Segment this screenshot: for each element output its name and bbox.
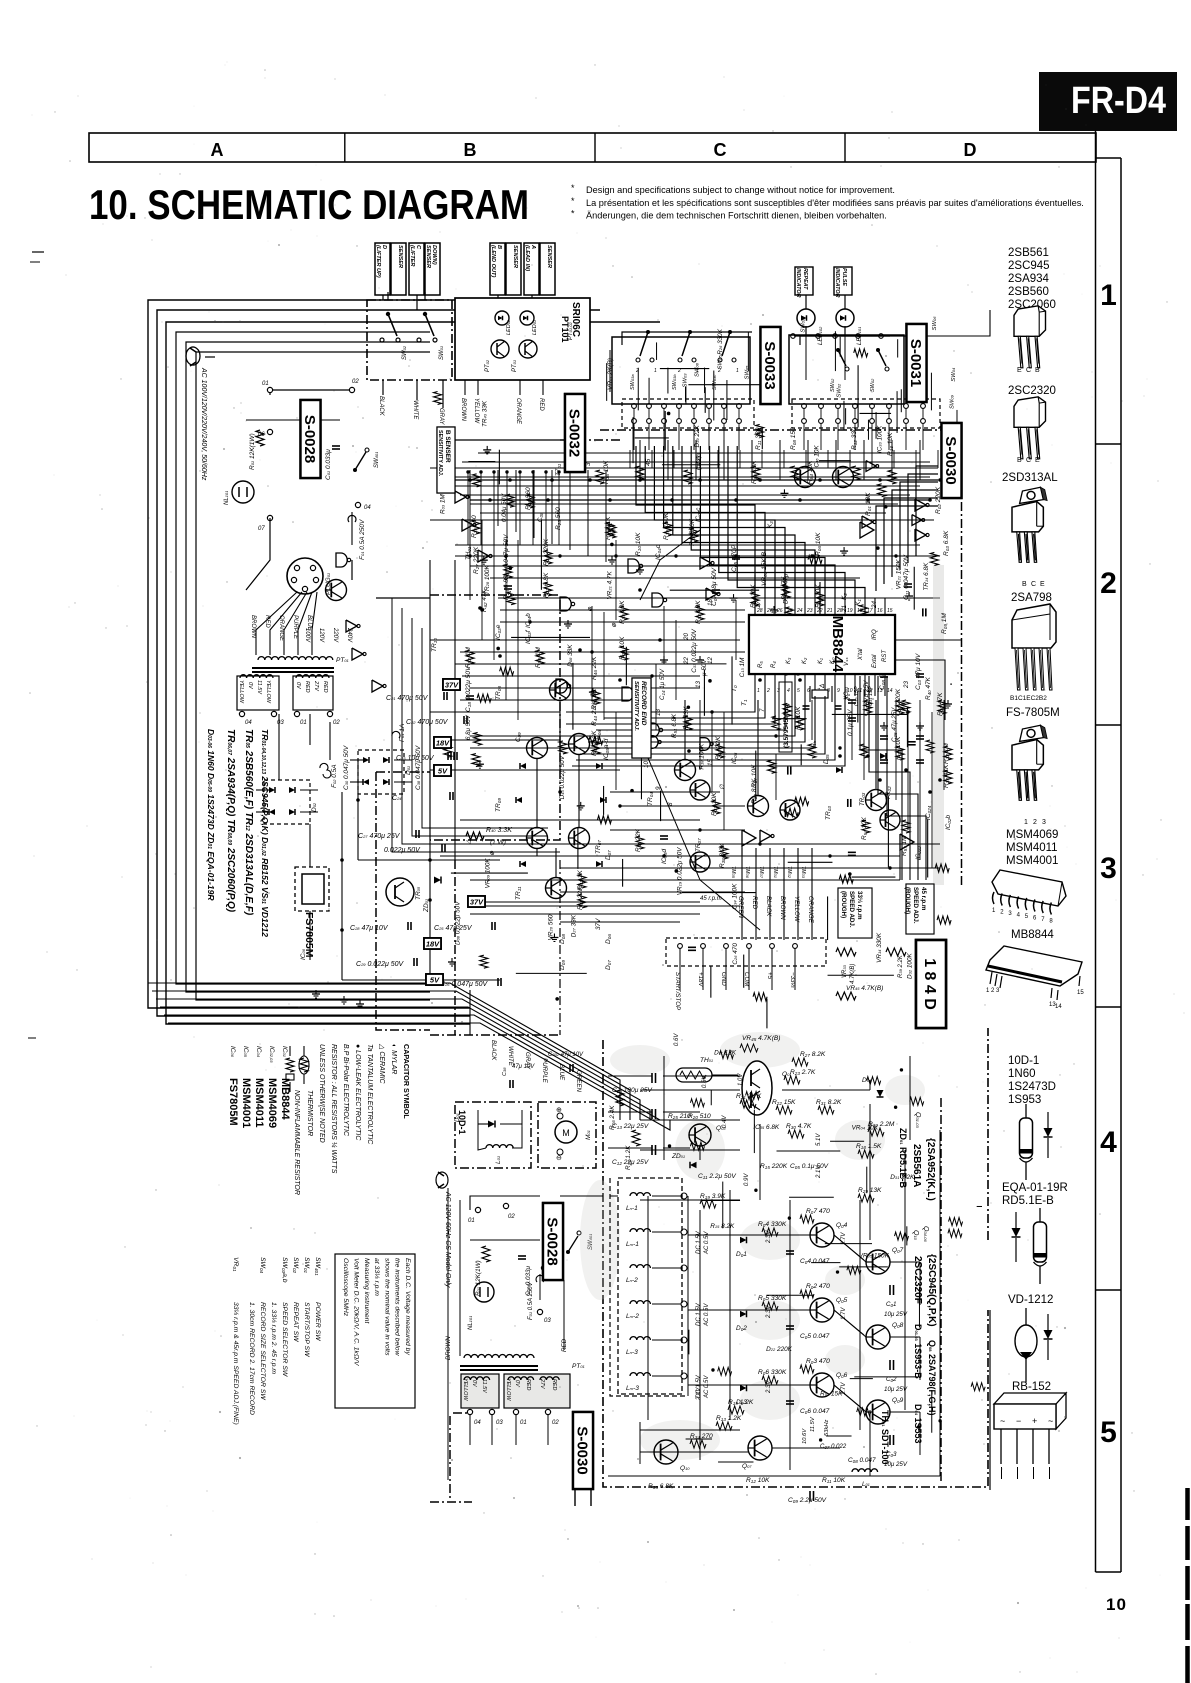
svg-text:(LEND OUT): (LEND OUT) [490,245,496,277]
svg-text:T701: T701 [555,463,562,476]
svg-text:0.6V: 0.6V [702,1075,708,1088]
svg-text:{2SC945(Q,P,K): {2SC945(Q,P,K) [926,1254,937,1327]
svg-text:9: 9 [655,786,662,790]
svg-text:CAPACITOR SYMBOL: CAPACITOR SYMBOL [402,1044,411,1119]
svg-text:03: 03 [544,1318,551,1324]
svg-text:T1: T1 [741,699,748,706]
svg-text:C08: C08 [537,512,544,522]
svg-text:04: 04 [474,1420,481,1426]
svg-text:C24: C24 [392,795,402,802]
svg-text:4: 4 [1100,1126,1117,1159]
svg-text:03: 03 [496,1420,503,1426]
svg-text:D07: D07 [605,850,612,860]
svg-text:R15 220K: R15 220K [760,1163,788,1170]
svg-text:PULSE: PULSE [841,268,847,286]
svg-text:2.3V: 2.3V [766,1230,772,1244]
svg-text:Each D.C. Voltage measured by: Each D.C. Voltage measured by [404,1258,411,1355]
svg-text:YELLOW: YELLOW [462,1378,468,1401]
svg-text:C: C [714,140,727,160]
svg-text:(ROUGH): (ROUGH) [904,887,911,914]
svg-text:Q07: Q07 [742,1463,752,1470]
svg-text:MSM4001: MSM4001 [240,1078,252,1128]
svg-text:SW401: SW401 [314,1257,321,1276]
svg-text:01: 01 [262,381,269,387]
svg-text:53kHz: 53kHz [824,1419,830,1436]
svg-text:120V: 120V [318,628,324,643]
svg-text:0.4V: 0.4V [722,1115,728,1128]
svg-text:C11 2.2μ 50V: C11 2.2μ 50V [698,1173,736,1180]
svg-text:VD-1212: VD-1212 [1008,1294,1053,1306]
svg-text:R08 150: R08 150 [790,427,797,450]
svg-text:13: 13 [695,681,702,688]
svg-text:ZD01: ZD01 [671,1153,685,1160]
svg-text:C14 1μ 50V: C14 1μ 50V [659,668,666,700]
svg-text:TR07: TR07 [595,840,602,854]
svg-text:INDICATOR: INDICATOR [834,268,840,298]
svg-text:FS7805M: FS7805M [227,1078,239,1126]
svg-text:R10 10K: R10 10K [635,532,642,556]
svg-text:D27 33K: D27 33K [570,914,577,937]
svg-text:RED: RED [751,896,758,910]
svg-text:04: 04 [245,720,252,726]
svg-text:+5: +5 [766,972,773,980]
svg-text:11.5V: 11.5V [256,680,262,695]
svg-text:11.5V: 11.5V [810,1416,816,1432]
svg-text:27V: 27V [539,1378,545,1390]
svg-text:IC02b: IC02b [945,814,952,830]
svg-text:D38 0.047μ: D38 0.047μ [782,573,789,604]
svg-text:BLACK: BLACK [765,896,772,917]
svg-text:9: 9 [837,688,840,694]
svg-text:5.1V: 5.1V [816,1133,822,1146]
svg-text:RECORD END: RECORD END [640,681,647,726]
svg-text:3: 3 [1042,819,1046,826]
svg-text:C03 47μ 10V: C03 47μ 10V [915,653,922,690]
svg-text:Q06: Q06 [836,1372,848,1379]
svg-text:R03 6.8K: R03 6.8K [943,530,950,556]
svg-text:C06 0.047: C06 0.047 [800,1408,830,1415]
svg-text:1 8 4 D: 1 8 4 D [921,958,938,1010]
svg-text:S-0028: S-0028 [301,415,318,463]
svg-text:⊕: ⊕ [611,622,618,628]
svg-text:TR10: TR10 [431,638,438,652]
svg-text:C15 47μ 25V: C15 47μ 25V [891,707,898,742]
svg-text:2.1V: 2.1V [696,1387,702,1401]
svg-text:Q07: Q07 [892,1247,904,1254]
svg-text:POWER SW: POWER SW [314,1302,321,1341]
svg-text:R15 1.2K: R15 1.2K [625,1145,632,1170]
svg-text:S-0030: S-0030 [942,436,959,484]
svg-text:AC 0.5V: AC 0.5V [704,1231,710,1255]
svg-text:Ln-2: Ln-2 [626,1277,638,1284]
svg-text:MSM4069: MSM4069 [266,1078,278,1128]
svg-text:M: M [562,1128,570,1138]
svg-text:2SA934: 2SA934 [1008,273,1050,285]
svg-text:Q05: Q05 [836,1297,848,1304]
svg-text:11.5V: 11.5V [481,1379,487,1394]
svg-text:GREEN: GREEN [575,1070,582,1093]
svg-text:24: 24 [871,601,878,609]
svg-text:(LIFTER UP): (LIFTER UP) [375,245,381,278]
svg-text:VR05 150K: VR05 150K [859,1252,890,1259]
svg-text:START/STOP SW: START/STOP SW [303,1302,310,1357]
svg-text:AC 0.5V: AC 0.5V [704,1375,710,1399]
svg-text:△: △ [465,839,472,845]
svg-text:C09 2.2μ 50V: C09 2.2μ 50V [788,1497,827,1504]
svg-text:02: 02 [333,720,340,726]
svg-text:TR43 33K: TR43 33K [482,400,489,427]
svg-text:D02: D02 [311,802,318,812]
svg-text:B.P Bi-Polar ELECTROLYTIC: B.P Bi-Polar ELECTROLYTIC [342,1044,349,1137]
svg-text:1S953: 1S953 [1008,1094,1041,1106]
svg-text:IC35 6.8K: IC35 6.8K [753,1124,780,1131]
svg-text:S-0031: S-0031 [907,339,924,387]
svg-text:33⅓ r.p.m & 45r.p.m SPEED ADJ.: 33⅓ r.p.m & 45r.p.m SPEED ADJ.(FINE) [232,1302,239,1425]
svg-text:IC06: IC06 [300,948,307,960]
svg-text:⊕: ⊕ [489,850,496,856]
svg-text:RESISTOR : ALL RESISTORS ¼ WAT: RESISTOR : ALL RESISTORS ¼ WATTS [330,1044,337,1174]
svg-text:S-0033: S-0033 [761,341,778,389]
svg-text:1: 1 [1024,819,1028,826]
svg-text:C13 1M: C13 1M [739,657,746,677]
svg-text:07: 07 [258,526,265,532]
svg-text:D31 2.2K: D31 2.2K [890,1174,915,1181]
svg-text:14: 14 [887,688,893,694]
svg-text:L01: L01 [495,1156,502,1164]
svg-text:K₀: K₀ [830,657,836,664]
svg-text:R05 15K: R05 15K [820,1391,843,1398]
svg-text:NON-INFLAMMABLE RESISTOR: NON-INFLAMMABLE RESISTOR [293,1090,300,1195]
svg-text:F02 0.5A: F02 0.5A [331,764,338,788]
svg-text:18: 18 [707,599,714,606]
svg-text:*: * [571,209,575,219]
svg-text:C09: C09 [515,732,522,742]
svg-text:FR-D4: FR-D4 [1071,80,1166,122]
svg-text:DC 1.5V: DC 1.5V [696,1302,702,1326]
svg-text:19: 19 [695,605,702,612]
svg-text:GND: GND [720,972,727,986]
svg-text:R02 470: R02 470 [806,1283,830,1290]
svg-text:K₃: K₃ [786,657,792,664]
svg-text:*: * [571,196,575,206]
svg-text:2.1V: 2.1V [816,1165,822,1179]
svg-text:Ln-3: Ln-3 [626,1349,638,1356]
svg-text:∅: ∅ [719,784,726,790]
svg-text:SENSER: SENSER [397,245,403,268]
svg-text:Volt Meter D.C. 20kΩ/V, A.C. 1: Volt Meter D.C. 20kΩ/V, A.C. 1kΩ/V [353,1258,360,1367]
svg-text:{2SA952(K,L): {2SA952(K,L) [925,1138,936,1201]
svg-text:B1C1EC2B2: B1C1EC2B2 [1010,695,1047,702]
svg-text:B: B [1035,367,1040,374]
svg-text:IRQ: IRQ [872,629,878,640]
svg-text:D04 1S553: D04 1S553 [913,1404,923,1443]
svg-text:R23 2.7K: R23 2.7K [790,1069,816,1076]
svg-text:B: B [1022,581,1027,588]
svg-text:YELLOW: YELLOW [265,680,271,704]
svg-text:● LOW-LEAK ELECTROLYTIC: ● LOW-LEAK ELECTROLYTIC [354,1044,361,1141]
svg-text:R30 4.7K: R30 4.7K [786,1123,812,1130]
svg-text:C01 0.033μ: C01 0.033μ [325,449,332,480]
svg-text:◐ MYLAR: ◐ MYLAR [390,1044,397,1074]
svg-text:C08 0.047: C08 0.047 [848,1457,876,1464]
svg-text:C38 0.047μ 50V: C38 0.047μ 50V [415,745,422,790]
svg-text:VR01: VR01 [232,1257,239,1272]
svg-text:2SD313AL: 2SD313AL [1002,472,1058,484]
svg-text:YELLOW: YELLOW [238,680,244,704]
svg-text:D08 0.022μ 50V: D08 0.022μ 50V [455,901,462,945]
svg-text:C04 0.047: C04 0.047 [800,1258,830,1265]
svg-text:27: 27 [766,608,773,614]
svg-text:220V: 220V [332,627,338,643]
svg-text:02: 02 [352,379,359,385]
svg-text:D32 100K: D32 100K [906,952,913,979]
svg-text:10: 10 [643,761,650,768]
svg-text:TH01: TH01 [465,546,472,560]
svg-text:15: 15 [1077,990,1084,996]
svg-text:D08 33K: D08 33K [567,644,574,667]
svg-text:Ta TANTALUM ELECTROLYTIC: Ta TANTALUM ELECTROLYTIC [366,1044,373,1145]
svg-text:D02: D02 [736,1325,747,1332]
svg-text:REPEAT SW: REPEAT SW [292,1302,299,1342]
svg-text:C05 0.1μ 50V: C05 0.1μ 50V [790,1163,829,1170]
svg-text:FS-7805M: FS-7805M [1006,707,1060,719]
svg-text:IC04b: IC04b [525,613,532,628]
svg-text:Q09: Q09 [892,1397,904,1404]
svg-text:R12 330: R12 330 [851,427,858,450]
svg-text:10D-1: 10D-1 [1008,1055,1039,1067]
svg-text:F01 0.5A 250V: F01 0.5A 250V [359,519,366,560]
svg-text:VR21 150K: VR21 150K [895,559,902,590]
svg-text:REPEAT: REPEAT [802,268,808,290]
svg-text:R11 10K: R11 10K [822,1477,846,1484]
svg-text:SPEED ADJ.: SPEED ADJ. [912,887,919,924]
svg-text:(LIFTER: (LIFTER [409,245,415,266]
svg-text:R19 1.2K: R19 1.2K [728,1399,754,1406]
svg-text:8: 8 [667,802,674,806]
svg-text:THERMISTOR: THERMISTOR [306,1090,313,1136]
svg-text:La présentation et les spécifi: La présentation et les spécifications so… [586,198,1084,208]
svg-text:1.0V: 1.0V [738,1073,744,1086]
svg-text:X'tal: X'tal [858,648,864,661]
svg-text:01: 01 [300,720,307,726]
svg-text:Oscilloscope 5MHz: Oscilloscope 5MHz [342,1258,349,1317]
svg-text:14: 14 [1055,1004,1062,1010]
svg-text:TH01: TH01 [700,1057,713,1064]
svg-text:START/STOP: START/STOP [674,972,681,1011]
svg-text:RECORD SIZE SELECTOR SW: RECORD SIZE SELECTOR SW [259,1302,266,1400]
svg-text:10.6V: 10.6V [802,1428,808,1444]
svg-text:R16 2.4K: R16 2.4K [609,1105,616,1130]
svg-text:C13 22μ 25V: C13 22μ 25V [612,1123,649,1130]
svg-text:4: 4 [787,688,790,694]
svg-text:17: 17 [755,601,762,608]
svg-text:DC 1.5V: DC 1.5V [696,1230,702,1254]
svg-text:5: 5 [797,688,800,694]
svg-text:C34 100K: C34 100K [731,883,738,910]
svg-text:PT01: PT01 [336,657,349,664]
svg-text:R19 3.9K: R19 3.9K [700,1193,726,1200]
svg-text:GRAY: GRAY [438,408,444,426]
svg-text:12: 12 [707,657,714,664]
svg-text:TR09: TR09 [495,798,502,812]
svg-text:23: 23 [806,608,813,614]
svg-text:E: E [1040,581,1045,588]
svg-text:R04 330K: R04 330K [758,1221,787,1228]
svg-text:MSM4069: MSM4069 [1006,829,1058,841]
svg-text:RB-152: RB-152 [1012,1381,1051,1393]
svg-text:C07 0.022: C07 0.022 [820,1444,847,1450]
svg-text:01: 01 [468,1218,475,1224]
svg-text:R03 1M: R03 1M [439,494,446,514]
svg-text:(LEAD IN): (LEAD IN) [524,245,530,271]
svg-text:YELLOW: YELLOW [793,896,800,923]
svg-text:21: 21 [841,605,848,613]
svg-text:VR26 560: VR26 560 [547,914,554,940]
svg-text:IC03f: IC03f [525,629,532,644]
svg-text:R01 12K(1W): R01 12K(1W) [249,433,256,470]
svg-text:R06 330K: R06 330K [758,1369,787,1376]
svg-text:100V: 100V [304,628,310,643]
svg-text:Lm-3: Lm-3 [626,1385,639,1392]
svg-text:1: 1 [654,368,657,374]
svg-text:15: 15 [887,608,893,614]
svg-text:R57 1M: R57 1M [901,835,908,856]
svg-text:C: C [1026,457,1031,464]
svg-text:2SB561: 2SB561 [1008,247,1049,259]
svg-text:C26 0.047μ 50V: C26 0.047μ 50V [440,981,489,988]
svg-text:2: 2 [766,688,770,694]
svg-text:R22 15K: R22 15K [772,1099,796,1106]
svg-text:Änderungen, die dem technische: Änderungen, die dem technischen Fortschr… [586,211,887,221]
svg-text:PURPLE: PURPLE [541,1058,548,1084]
svg-text:0.1μ 35V: 0.1μ 35V [847,709,854,736]
svg-text:03: 03 [277,720,284,726]
svg-text:R18 1.5K: R18 1.5K [856,1143,882,1150]
svg-text:0.9V: 0.9V [744,1173,750,1186]
svg-text:MB8844: MB8844 [279,1078,291,1120]
svg-text:R07 470: R07 470 [806,1208,830,1215]
svg-text:5V: 5V [438,767,448,776]
svg-text:R26 330K: R26 330K [717,328,724,355]
svg-text:+: + [1032,1416,1037,1426]
svg-text:Ln-1: Ln-1 [626,1205,638,1212]
svg-text:VR45 4.7K(B): VR45 4.7K(B) [846,985,883,992]
svg-text:1. 30cm RECORD 2. 17cm RECO: 1. 30cm RECORD 2. 17cm RECORD [248,1302,255,1415]
svg-text:*: * [571,183,575,193]
svg-text:YELLOW: YELLOW [505,1378,511,1401]
svg-text:D07: D07 [605,960,612,970]
svg-text:K₂: K₂ [802,657,808,664]
svg-text:R16 10K: R16 10K [603,460,610,484]
svg-text:IC05: IC05 [242,1046,249,1058]
svg-text:IC02,03: IC02,03 [268,1046,275,1063]
svg-text:B SENSER: B SENSER [444,430,451,463]
svg-text:4.7K(B): 4.7K(B) [850,964,856,984]
svg-text:27V: 27V [313,680,319,692]
svg-text:D05: D05 [823,754,830,764]
svg-text:D06: D06 [605,934,612,944]
svg-text:S-0032: S-0032 [566,409,583,457]
svg-text:Q01-03: Q01-03 [914,1112,921,1128]
svg-text:0.6V: 0.6V [674,1033,680,1046]
svg-text:18V: 18V [436,739,450,748]
svg-text:IC04: IC04 [255,1046,262,1058]
svg-text:TR05 2SB560(E,F) TR12 2SD313: TR05 2SB560(E,F) TR12 2SD313AL(D,E,F) [243,729,254,916]
svg-text:10μ 25V: 10μ 25V [884,1386,908,1393]
svg-text:06: 06 [258,432,265,438]
svg-text:R23 560: R23 560 [555,507,562,530]
svg-text:UNLESS OTHERWISE NOTED: UNLESS OTHERWISE NOTED [318,1044,325,1143]
svg-text:RED: RED [264,615,270,628]
svg-text:SENSER: SENSER [546,245,552,268]
svg-text:Q04-06: Q04-06 [922,1226,929,1242]
svg-text:VR04 10K: VR04 10K [852,1124,879,1131]
svg-text:01: 01 [520,1420,527,1426]
svg-text:Q10: Q10 [912,1230,919,1241]
svg-text:RED: RED [551,1379,557,1390]
svg-text:SENSITIVITY ADJ.: SENSITIVITY ADJ. [633,681,639,731]
svg-text:D43 0.022μ 50V: D43 0.022μ 50V [559,755,566,799]
svg-text:WHITE: WHITE [412,400,418,420]
svg-text:0.04μ 50V: 0.04μ 50V [501,493,508,522]
svg-text:1N60: 1N60 [1008,1068,1036,1080]
svg-text:SPEED ADJ.: SPEED ADJ. [848,891,855,928]
svg-text:R₄: R₄ [771,661,777,668]
svg-text:K₁: K₁ [818,658,824,664]
svg-text:R03 470: R03 470 [806,1358,830,1365]
svg-text:L01: L01 [862,1481,870,1488]
svg-text:A: A [211,140,224,160]
svg-text:VR45 4.7K(B): VR45 4.7K(B) [742,1035,780,1042]
svg-text:20: 20 [683,633,690,641]
svg-text:RD5.1E-B: RD5.1E-B [1002,1195,1054,1207]
svg-text:⊖: ⊖ [556,1155,562,1162]
svg-text:INDICATOR: INDICATOR [795,268,801,298]
svg-text:D03-06 1N60 D05-09 1S2473D: D03-06 1N60 D05-09 1S2473D ZD01 EQA-01-1… [206,729,216,901]
svg-text:RST: RST [882,649,888,662]
svg-text:BROWN: BROWN [779,896,786,920]
svg-text:M01: M01 [585,1130,592,1140]
svg-text:2.3V: 2.3V [766,1305,772,1319]
svg-text:MSM4011: MSM4011 [1006,842,1058,854]
svg-text:R20 510: R20 510 [688,1113,711,1120]
svg-text:ORANGE: ORANGE [278,615,284,642]
svg-text:C26 470: C26 470 [732,943,739,965]
svg-text:−33⅓: −33⅓ [789,972,796,988]
svg-text:33⅓ r.p.m: 33⅓ r.p.m [856,891,863,920]
svg-text:Design and specifications subj: Design and specifications subject to cha… [586,185,895,195]
svg-text:Measuring instrument: Measuring instrument [363,1258,370,1324]
svg-text:C28 47μ 10V: C28 47μ 10V [350,925,389,932]
svg-text:K1: K1 [855,599,862,606]
svg-text:IC33 100K: IC33 100K [876,425,883,453]
svg-text:Extal: Extal [872,654,878,668]
svg-text:D: D [964,140,977,160]
svg-text:TR14 6.8K: TR14 6.8K [923,562,930,591]
svg-text:2SA798: 2SA798 [1011,592,1052,604]
svg-text:TR07: TR07 [695,838,702,852]
svg-text:C18 0.022μ 50V: C18 0.022μ 50V [465,666,472,712]
svg-text:37V: 37V [470,898,484,907]
svg-text:−: − [1016,1416,1021,1426]
svg-text:S-0030: S-0030 [574,1426,591,1474]
svg-text:5: 5 [1100,1416,1117,1449]
svg-text:S-0028: S-0028 [544,1217,561,1265]
svg-text:GRAY: GRAY [524,1052,531,1070]
svg-text:SENSITIVITY ADJ.: SENSITIVITY ADJ. [437,430,443,477]
svg-text:C05 0.047: C05 0.047 [800,1333,830,1340]
svg-text:SW02: SW02 [292,1257,299,1274]
